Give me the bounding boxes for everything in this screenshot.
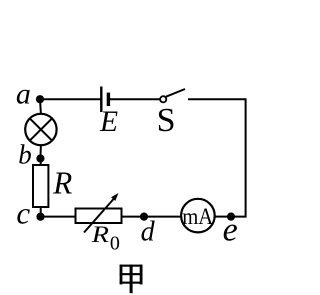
svg-text:E: E bbox=[99, 106, 118, 138]
wire: resistor R to node c bbox=[40, 207, 42, 217]
wire: node e to milliammeter bbox=[215, 216, 231, 218]
wire: node a to lamp bbox=[39, 99, 42, 114]
wire: node d to rheostat R0 bbox=[122, 216, 144, 218]
svg-text:a: a bbox=[16, 77, 31, 110]
node a bbox=[36, 95, 44, 103]
node d bbox=[140, 213, 148, 221]
milliammeter mA bbox=[181, 199, 215, 233]
svg-text:R: R bbox=[52, 166, 72, 201]
svg-text:S: S bbox=[157, 102, 176, 139]
wire: rheostat to node c bbox=[41, 216, 76, 218]
svg-text:c: c bbox=[16, 196, 30, 231]
svg-text:R: R bbox=[91, 222, 109, 247]
wire: switch to top-right corner down to node e bbox=[188, 99, 246, 216]
node b bbox=[36, 154, 44, 162]
rheostat R0 bbox=[76, 193, 122, 233]
wire: milliammeter to node d bbox=[144, 216, 181, 218]
node c bbox=[36, 213, 44, 221]
node e bbox=[227, 213, 235, 221]
wire: lamp to node b bbox=[39, 145, 42, 159]
svg-text:0: 0 bbox=[110, 233, 120, 255]
resistor R bbox=[33, 165, 48, 207]
wire: battery to switch bbox=[110, 98, 160, 100]
wire: node b to resistor R bbox=[40, 158, 42, 166]
lamp bbox=[25, 114, 56, 145]
wire: node a to battery bbox=[40, 98, 101, 100]
caption 甲 bbox=[120, 265, 143, 294]
svg-text:d: d bbox=[141, 217, 156, 248]
battery E bbox=[101, 87, 108, 113]
svg-text:b: b bbox=[18, 139, 32, 169]
switch S bbox=[160, 89, 185, 102]
svg-text:mA: mA bbox=[182, 204, 213, 229]
